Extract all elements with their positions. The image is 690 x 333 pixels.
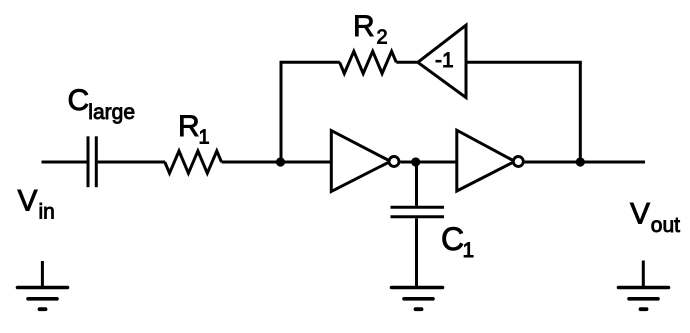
wire feedback top left [280,61,340,64]
label Clarge [68,84,136,124]
svg-text:out: out [651,214,680,237]
label R2 [353,10,388,49]
wire output (through node Vout) [525,161,645,164]
ground under C1 [392,288,443,310]
inverter U2 (triangle) [457,130,515,191]
label C1 [441,221,474,262]
op-amp U3 gain -1 (left-pointing triangle) [418,25,466,97]
inverter U1 (triangle) [331,131,390,192]
label Vout [630,197,680,237]
wire inverting amp output to right vertical [466,61,582,64]
svg-text:large: large [88,101,135,124]
ground at output (Vout reference) [619,261,669,310]
node B junction dot [411,157,420,166]
inverter U1 output bubble [389,157,399,167]
svg-text:V: V [18,184,38,217]
wire input segment [42,161,87,164]
wire R1 to inverter U1 input (through node A) [222,161,332,164]
label Vin [18,184,55,223]
node A junction dot [276,157,285,166]
svg-text:in: in [39,200,55,223]
wire R2 to inverting amp [396,61,417,64]
svg-text:R: R [353,10,375,43]
label R1 [178,110,210,149]
inverter U2 output bubble [513,157,523,167]
svg-text:C: C [441,221,464,257]
svg-text:R: R [178,110,200,143]
label -1 [435,49,454,72]
capacitor C1 [391,207,445,216]
wire node B down to C1 [415,162,418,206]
svg-text:-1: -1 [435,49,454,72]
node Vout junction dot [576,157,585,166]
svg-text:1: 1 [199,127,210,149]
capacitor Clarge [88,136,96,187]
svg-text:1: 1 [463,239,475,262]
wire C1 to ground [415,218,418,287]
svg-text:C: C [68,84,90,117]
wire feedback left vertical [280,62,283,162]
ground at input (Vin reference) [18,261,68,309]
wire Clarge to R1 [98,161,165,164]
svg-text:2: 2 [377,27,388,49]
wire U1 bubble to U2 input (through node B) [400,161,456,164]
wire feedback right vertical [579,62,582,162]
resistor R2 [340,51,397,73]
svg-text:V: V [630,197,650,230]
resistor R1 [165,151,222,173]
